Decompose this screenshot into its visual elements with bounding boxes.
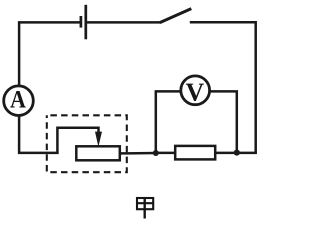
resistor R: body <box>175 146 215 160</box>
ammeter A1: letter A <box>10 91 25 108</box>
wire: switch right contact, top-right corner, right side down, to node B <box>190 22 256 153</box>
ammeter A1: circle <box>4 86 34 116</box>
voltmeter V1: circle <box>181 76 210 105</box>
switch S1: open blade <box>160 9 192 23</box>
rheostat slider arrowhead <box>95 132 102 147</box>
wire: top-left from battery to ammeter <box>19 22 80 85</box>
node A junction dot <box>153 150 159 156</box>
wire: node A to resistor R <box>156 152 176 155</box>
wire: ammeter to bottom-left corner to rheostat jog <box>19 116 59 153</box>
wire: voltmeter branch left (node A up and across) <box>156 91 181 153</box>
battery B1: long positive plate <box>84 5 87 40</box>
dashed box around rheostat <box>47 115 127 172</box>
wire: battery to switch pivot <box>87 21 161 24</box>
voltmeter V1: letter V <box>186 84 204 101</box>
label 甲 (figure caption) <box>136 197 154 218</box>
wire: voltmeter branch right (across and down to node B) <box>210 91 237 153</box>
wire: rheostat slider feed (up, across, down to wiper) <box>57 128 98 154</box>
node B junction dot <box>234 150 240 156</box>
battery B1: short negative plate <box>80 16 83 28</box>
rheostat body <box>76 146 120 160</box>
wire: resistor R to node B <box>216 152 238 155</box>
wire: rheostat right lead to node A <box>121 152 157 155</box>
